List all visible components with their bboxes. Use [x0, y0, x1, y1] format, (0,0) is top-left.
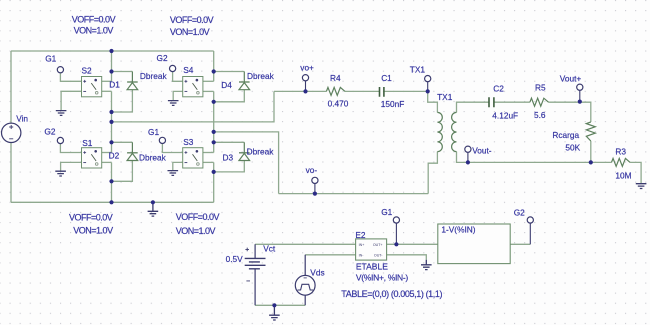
node right bridge output [212, 130, 216, 134]
ground R3 [636, 184, 647, 189]
node Vout- terminal [465, 146, 471, 152]
wire S3 control- to ground [173, 162, 183, 170]
svg-text:50K: 50K [565, 142, 580, 152]
wire G2 terminal stem [529, 223, 531, 244]
transformer TX1 secondary winding [452, 112, 457, 151]
svg-text:Vout-: Vout- [472, 146, 492, 156]
svg-text:vo+: vo+ [300, 62, 314, 72]
capacitor C1 [380, 87, 384, 97]
node vo- [313, 192, 317, 196]
svg-text:C2: C2 [493, 83, 504, 93]
svg-text:ETABLE: ETABLE [356, 262, 388, 272]
node G1 (S3 gate) terminal [159, 137, 165, 143]
svg-text:S2: S2 [82, 65, 93, 75]
node top rail / left bus [109, 49, 113, 53]
wire bottom rail [11, 201, 214, 203]
ground bottom rail [148, 202, 159, 216]
wire D3 bottom lead [214, 161, 245, 172]
svg-text:S3: S3 [183, 137, 194, 147]
voltage source Vin [2, 123, 21, 142]
wire R5 to Rcarga [549, 102, 591, 122]
svg-text:Dbreak: Dbreak [139, 152, 167, 162]
diode D3 [239, 142, 250, 160]
wire Vin top lead [10, 51, 12, 123]
ground bottom section [269, 305, 280, 320]
svg-text:VOFF=0.0V: VOFF=0.0V [170, 15, 214, 25]
wire vo+ rail [274, 90, 326, 92]
svg-text:OUT+: OUT+ [373, 243, 383, 247]
node D1 anode [109, 110, 113, 114]
svg-text:OUT-: OUT- [374, 254, 383, 258]
wire top rail [11, 50, 214, 52]
wire Vin bottom lead [10, 143, 12, 203]
node D3 anode [212, 170, 216, 174]
node Vout- [466, 160, 470, 164]
svg-text:C1: C1 [381, 73, 392, 83]
wire block output to G2 [510, 243, 530, 245]
node D4 anode [212, 100, 216, 104]
svg-text:G1: G1 [148, 127, 159, 137]
wire Vct/Vds bottom [255, 304, 305, 306]
node G1 output terminal [393, 217, 399, 223]
wire left bus middle [111, 91, 113, 152]
wire S4 pin bottom [203, 90, 214, 92]
svg-text:Vds: Vds [310, 268, 324, 278]
wire secondary top lead [457, 102, 489, 112]
wire Vds to E2 IN- [305, 254, 355, 256]
svg-text:R5: R5 [535, 82, 546, 92]
svg-text:G2: G2 [157, 53, 168, 63]
svg-text:Dbreak: Dbreak [140, 71, 168, 81]
node vo- terminal [312, 177, 318, 183]
svg-text:VON=1.0V: VON=1.0V [170, 27, 210, 37]
diode D4 [239, 72, 250, 90]
svg-text:S1: S1 [82, 138, 93, 148]
wire Vout- terminal stem [467, 152, 469, 162]
svg-text:D1: D1 [109, 80, 120, 90]
ground S3 control [168, 171, 179, 176]
node Rcarga bottom [589, 160, 593, 164]
svg-text:Vct: Vct [263, 243, 276, 253]
node vo+ [303, 89, 307, 93]
svg-text:Dbreak: Dbreak [247, 71, 275, 81]
switch S1 body [82, 148, 102, 168]
wire left bridge output to vo+ [112, 91, 275, 122]
svg-text:VON=1.0V: VON=1.0V [73, 225, 113, 235]
svg-text:E2: E2 [355, 230, 366, 240]
wire right bus upper [213, 51, 215, 81]
node Vout+ [578, 100, 582, 104]
node Vct/Vds junction [272, 303, 276, 307]
svg-text:VOFF=0.0V: VOFF=0.0V [69, 212, 113, 222]
wire S1 control- to ground [61, 162, 82, 171]
svg-text:R3: R3 [615, 147, 626, 157]
wire R3 to ground [630, 162, 641, 183]
wire R4 to C1 [345, 90, 379, 92]
ground S4 control [168, 101, 179, 106]
wire vo+ terminal stem [305, 81, 307, 92]
svg-text:5.6: 5.6 [534, 110, 546, 120]
wire Vout+ terminal stem [579, 90, 581, 101]
node left bridge output [109, 120, 113, 124]
node bottom rail / left bus [109, 200, 113, 204]
wire S4 pin top [203, 80, 214, 82]
svg-text:D4: D4 [221, 80, 232, 90]
wire vo- rail [279, 193, 429, 195]
svg-text:Vout+: Vout+ [560, 73, 582, 83]
wire D2 top tap [112, 141, 133, 143]
svg-text:VON=1.0V: VON=1.0V [176, 226, 216, 236]
svg-text:Rcarga: Rcarga [552, 130, 579, 140]
wire Rcarga bottom lead [590, 141, 592, 162]
node E2 OUT+ junction [394, 242, 398, 246]
wire S2 control- to ground [61, 91, 81, 110]
wire TX1 terminal stem [427, 82, 429, 92]
wire C1 to TX1 [384, 90, 428, 92]
wire D1 bottom lead [112, 90, 133, 112]
svg-text:VOFF=0.0V: VOFF=0.0V [72, 14, 116, 24]
wire S2 pin bottom [102, 90, 112, 92]
diode D1 [127, 72, 138, 90]
wire left bus upper [111, 51, 113, 81]
wire E2 OUT+ to block [387, 243, 438, 245]
wire C2 to R5 [494, 101, 530, 103]
svg-text:VOFF=0.0V: VOFF=0.0V [176, 212, 220, 222]
node D4 cathode [212, 69, 216, 73]
capacitor C2 [489, 97, 494, 107]
wire vo- terminal stem [314, 184, 316, 194]
node bottom rail ground tap [151, 200, 155, 204]
wire S4 control- to ground [173, 91, 183, 100]
wire TX1 primary bottom lead [428, 152, 437, 194]
node D2 cathode [109, 140, 113, 144]
svg-text:10M: 10M [615, 171, 631, 181]
wire G1 to S3 control+ [162, 144, 182, 153]
wire S3 pin top [203, 152, 214, 154]
switch S2 body [82, 77, 102, 97]
wire Vout- rail [457, 152, 612, 163]
node TX1 primary top terminal [425, 76, 431, 82]
node G1 (S2 gate) terminal [57, 67, 63, 73]
node D3 cathode [212, 140, 216, 144]
resistor R4 [326, 87, 345, 95]
resistor Rcarga [586, 122, 595, 141]
svg-text:1-V(%IN): 1-V(%IN) [441, 224, 475, 234]
switch S3 body [183, 148, 203, 168]
ground S1 control [55, 171, 66, 176]
resistor R5 [530, 98, 549, 106]
svg-text:TABLE=(0,0) (0.005,1) (1,1): TABLE=(0,0) (0.005,1) (1,1) [341, 289, 442, 299]
wire G1 terminal stem [395, 223, 397, 244]
diode D2 [127, 142, 138, 160]
svg-text:0.5V: 0.5V [226, 254, 244, 264]
node G2 (S1 gate) terminal [57, 137, 63, 143]
svg-text:G2: G2 [44, 127, 55, 137]
wire G1 to S2 control+ [60, 73, 81, 82]
controlled source E2 (ETABLE) [356, 239, 387, 260]
wire G2 to S1 control+ [60, 144, 81, 153]
wire S1 pin top [102, 152, 112, 154]
svg-text:Vin: Vin [16, 113, 28, 123]
resistor R3 [612, 158, 631, 166]
svg-text:Dbreak: Dbreak [247, 146, 275, 156]
node Vout+ terminal [577, 84, 583, 90]
svg-text:IN-: IN- [359, 254, 365, 258]
node D1 cathode [109, 69, 113, 73]
wire S2 pin top [102, 80, 112, 82]
wire D4 top tap [214, 71, 245, 73]
svg-text:D3: D3 [223, 152, 234, 162]
wire right bus middle [213, 91, 215, 152]
svg-text:TX1: TX1 [410, 64, 426, 74]
svg-text:G2: G2 [514, 207, 525, 217]
svg-text:IN+: IN+ [359, 243, 365, 247]
function block 1-V(%IN) [438, 224, 510, 264]
wire Vct to E2 IN+ [255, 243, 356, 245]
wire G2 to S4 control+ [173, 72, 183, 82]
wire left bus lower [111, 162, 113, 202]
wire TX1 primary top lead [428, 91, 438, 112]
node G2 (S4 gate) terminal [170, 65, 176, 71]
svg-text:4.12uF: 4.12uF [492, 111, 518, 121]
svg-text:G1: G1 [381, 207, 392, 217]
svg-text:D2: D2 [109, 151, 120, 161]
svg-text:0.470: 0.470 [328, 98, 349, 108]
wire D2 bottom lead [112, 161, 133, 182]
node D2 anode [109, 179, 113, 183]
svg-text:TX1: TX1 [437, 92, 453, 102]
svg-text:VON=1.0V: VON=1.0V [74, 25, 114, 35]
voltage source Vct (battery) [245, 244, 266, 305]
ground E2 OUT- [421, 260, 432, 270]
svg-text:S4: S4 [183, 65, 194, 75]
ground S2 control [56, 111, 67, 116]
svg-text:G1: G1 [45, 53, 56, 63]
wire right bridge output to vo- [214, 132, 279, 194]
transformer TX1 primary winding [437, 112, 442, 151]
svg-text:150nF: 150nF [381, 99, 405, 109]
wire D1 top tap [112, 71, 133, 73]
wire S1 pin bottom [102, 161, 112, 163]
wire E2 OUT- to ground [387, 255, 427, 260]
svg-text:V(%IN+, %IN-): V(%IN+, %IN-) [356, 273, 409, 283]
switch S4 body [183, 77, 203, 97]
node vo+ terminal [302, 75, 308, 81]
voltage source Vds (pulse) [295, 255, 315, 305]
node G2 output terminal [527, 217, 533, 223]
node TX1 primary top [426, 89, 430, 93]
wire S3 pin bottom [203, 161, 214, 163]
svg-text:R4: R4 [330, 73, 341, 83]
svg-text:vo-: vo- [306, 165, 318, 175]
wire D3 top tap [214, 141, 245, 143]
wire D4 bottom lead [214, 90, 245, 102]
wire right bus lower [213, 162, 215, 202]
